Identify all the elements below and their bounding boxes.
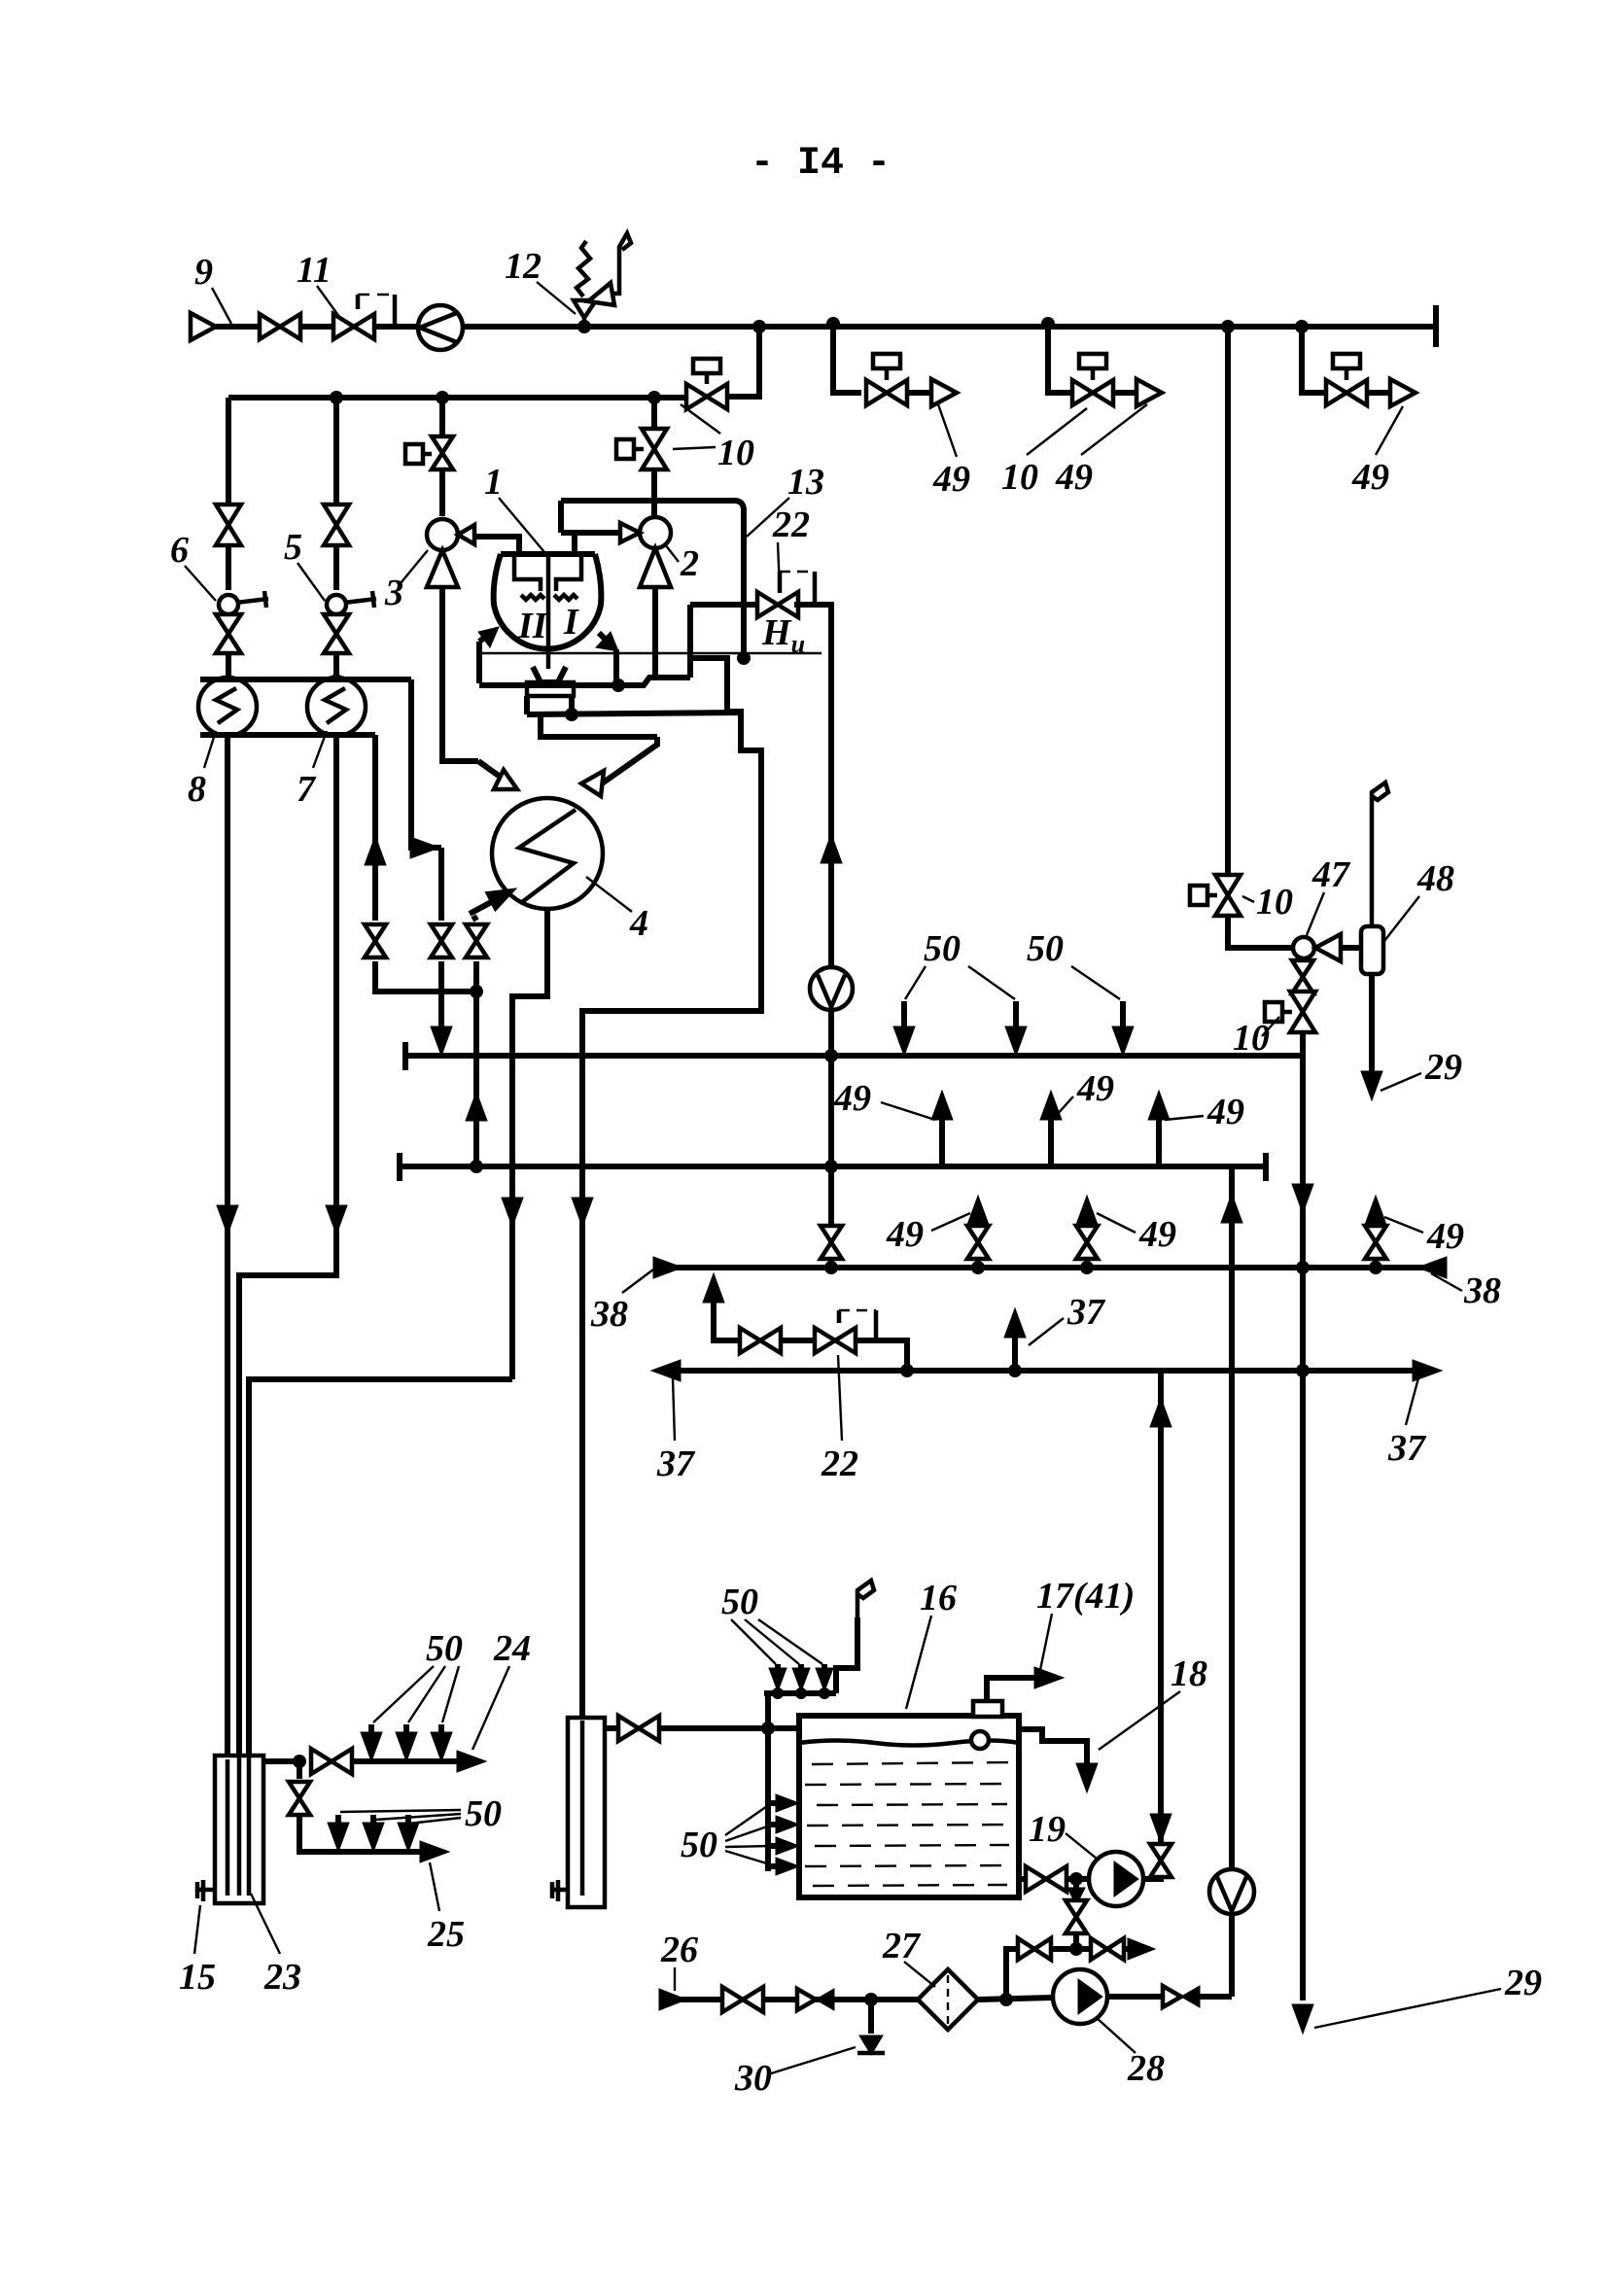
svg-text:49: 49 xyxy=(1206,1092,1244,1132)
wire duct top line xyxy=(200,677,411,682)
wire HX4 bottom to x527 xyxy=(512,909,547,1379)
valve 11 with actuator box xyxy=(333,314,374,339)
arrow outlet left line37 xyxy=(651,1360,681,1381)
node junction riser to valve 10a xyxy=(752,320,766,333)
svg-text:13: 13 xyxy=(787,462,824,503)
device 48 box xyxy=(1361,926,1383,974)
svg-text:10: 10 xyxy=(717,433,754,473)
wire branch 22b from line38 xyxy=(703,1273,724,1303)
arrow outlet right line37 xyxy=(1413,1360,1442,1381)
node junction to valve 5 column xyxy=(330,391,343,404)
wire staircase down to x599 xyxy=(582,658,761,1056)
svg-text:49: 49 xyxy=(932,459,970,500)
heat exchanger 7 xyxy=(307,678,366,736)
node junction branch 49a xyxy=(826,317,840,330)
node junction long right riser xyxy=(1221,320,1235,333)
wire cooler outlet to header 24 xyxy=(263,1758,299,1764)
svg-text:50: 50 xyxy=(924,928,961,969)
svg-text:15: 15 xyxy=(179,1957,216,1998)
wire x855 riser with booster pump xyxy=(828,605,834,1268)
svg-text:22: 22 xyxy=(821,1444,858,1484)
relief valve 12 with spring and vent flag xyxy=(574,233,631,327)
valve on column 6 xyxy=(216,504,241,545)
open arrow outlet 49a xyxy=(931,379,957,406)
valve on top line left xyxy=(260,314,300,339)
wire valve 3 stem to vessel xyxy=(474,537,519,554)
arrows 49 up from manifold2 xyxy=(939,1118,945,1166)
arrow inlet 26 xyxy=(659,1989,686,2010)
svg-text:11: 11 xyxy=(297,250,332,291)
svg-text:50: 50 xyxy=(465,1793,502,1834)
wire line 26 xyxy=(671,1997,918,2002)
wire column 5 x=346 xyxy=(333,398,339,504)
svg-text:16: 16 xyxy=(920,1578,957,1618)
wire under vessel level A xyxy=(479,678,690,685)
liquid dashes xyxy=(805,1762,1013,1886)
wire above 48 with flag xyxy=(1370,819,1375,926)
tank vent pipe with flag xyxy=(836,1618,857,1693)
svg-text:19: 19 xyxy=(1029,1809,1066,1850)
svg-text:29: 29 xyxy=(1504,1963,1542,2003)
wire tank top manifold xyxy=(764,1690,836,1696)
wire under vessel level B xyxy=(524,696,530,714)
node junction to valve 10b riser xyxy=(647,391,661,404)
valve 2 control valve xyxy=(620,517,671,587)
svg-text:2: 2 xyxy=(680,543,699,584)
wire x346 below HX7 down and over to x246 xyxy=(239,735,336,1756)
valve 22b with actuator box xyxy=(815,1328,856,1353)
pump on top line (circle with chords) xyxy=(418,305,463,350)
pump 28 xyxy=(1053,1969,1107,2024)
svg-text:17(41): 17(41) xyxy=(1036,1576,1135,1617)
wire tank left distribution column xyxy=(765,1693,771,1871)
svg-text:29: 29 xyxy=(1424,1047,1462,1088)
wire valve22 to x855 xyxy=(794,605,831,1056)
heat exchanger 4 xyxy=(492,798,603,909)
riser 49d on line38 xyxy=(975,1261,981,1268)
valve 10 branch b with handle xyxy=(1072,380,1113,405)
arrow outlet 25 xyxy=(420,1841,449,1862)
riser 49e on line38 xyxy=(1084,1261,1090,1268)
wire riser from top line down to valve 10a xyxy=(728,327,759,397)
wire below 10d to restrictor 47 xyxy=(1228,916,1294,948)
valve 10a on second line xyxy=(686,384,727,409)
wire duct bottom line xyxy=(200,732,375,738)
wire x234 below HX8 down to cooler 23 xyxy=(225,736,230,1759)
node junction drain 30 xyxy=(864,1993,878,2006)
wire line 37 xyxy=(665,1368,1426,1374)
cooler 23 body xyxy=(215,1756,263,1903)
svg-text:49: 49 xyxy=(1076,1068,1114,1109)
wire x765 drop to staircase xyxy=(741,605,747,658)
check valve on 26 xyxy=(797,1989,816,2010)
arrow down x599 below manifold2 xyxy=(572,1198,593,1227)
liquid level line xyxy=(799,1741,1019,1746)
node junction x1340 line38 xyxy=(1296,1261,1310,1274)
valve 22 xyxy=(757,592,798,617)
wire x599 long drop to unit 14 xyxy=(579,1011,585,1718)
svg-text:49: 49 xyxy=(1138,1214,1176,1255)
wire x=386 duct bottom drop xyxy=(372,735,378,921)
wire x710 drop xyxy=(687,605,693,678)
valve 10b with box handle xyxy=(642,429,667,470)
arrows 50 into tank left wall xyxy=(768,1800,778,1806)
wire 17(41) outlet xyxy=(987,1678,1036,1701)
svg-text:24: 24 xyxy=(493,1628,531,1669)
wire long riser x1263 xyxy=(1225,327,1231,875)
node junction to valve 3 column xyxy=(436,391,449,404)
wire left column x=234 from second line xyxy=(226,398,231,504)
arrow down x1340 below manifold2 level xyxy=(1292,1184,1313,1213)
bypass from filter outlet xyxy=(1006,1949,1018,2000)
wire top main line xyxy=(202,324,1436,330)
pump 19 branch down xyxy=(1073,1879,1079,1891)
svg-text:28: 28 xyxy=(1127,2048,1165,2089)
svg-text:1: 1 xyxy=(484,462,503,503)
svg-text:8: 8 xyxy=(188,769,206,810)
wire 13 frame right leg xyxy=(654,501,744,605)
fitting 15 left xyxy=(197,1880,215,1901)
svg-text:10: 10 xyxy=(1233,1018,1270,1059)
svg-text:7: 7 xyxy=(297,769,317,810)
valve on x855 above line38 xyxy=(821,1226,842,1259)
valve unit14 outlet xyxy=(605,1725,618,1731)
valve 6 gland valve with lever xyxy=(216,591,268,653)
overflow 18 xyxy=(1019,1729,1087,1763)
arrow down x234 xyxy=(217,1205,238,1235)
svg-text:47: 47 xyxy=(1311,854,1351,895)
wire under vessel level C xyxy=(541,714,657,737)
pump 19 suction xyxy=(1019,1876,1028,1882)
svg-text:II: II xyxy=(517,606,548,646)
arrow inlet left line38 xyxy=(653,1257,682,1278)
filter 27 diamond xyxy=(918,1969,978,2030)
arrows 50 into tank manifold xyxy=(775,1664,781,1670)
wire diagonal into HX4 left xyxy=(478,761,512,785)
arrow down x527 below manifold2 xyxy=(502,1198,523,1227)
arrow up between manifolds x490 xyxy=(466,1092,487,1121)
wire manifold 2 xyxy=(400,1164,1266,1169)
svg-text:25: 25 xyxy=(427,1914,465,1955)
svg-text:38: 38 xyxy=(1463,1270,1501,1311)
valve 10e with box handle xyxy=(1290,991,1315,1032)
node tee 13 frame at riser xyxy=(561,498,654,504)
node junction duct top at HX7 xyxy=(331,674,342,685)
arrows 50 onto 24 header xyxy=(368,1724,374,1734)
valve with box handle on x455 xyxy=(439,398,445,435)
svg-text:10: 10 xyxy=(1001,457,1038,498)
svg-text:49: 49 xyxy=(1055,457,1093,498)
svg-text:48: 48 xyxy=(1416,858,1454,899)
svg-text:18: 18 xyxy=(1171,1653,1207,1694)
arrow outlet 24 xyxy=(457,1751,486,1772)
node junction x490 y1020 xyxy=(470,985,483,998)
supply arrows 50 onto manifold1 xyxy=(901,1001,907,1026)
wire second header line xyxy=(228,395,686,400)
svg-text:23: 23 xyxy=(263,1957,301,1998)
svg-text:3: 3 xyxy=(384,573,403,613)
wire filter to pump 28 xyxy=(978,1998,1053,2000)
svg-text:37: 37 xyxy=(1066,1292,1106,1333)
wire branch 49a drop xyxy=(833,324,861,393)
valve on 22b branch xyxy=(740,1328,781,1353)
svg-text:38: 38 xyxy=(590,1294,628,1335)
svg-text:49: 49 xyxy=(1351,457,1389,498)
node junction x855 line38 xyxy=(824,1261,838,1274)
valve branch 49c with handle xyxy=(1326,380,1367,405)
valve on 26 xyxy=(722,1987,763,2012)
fitting 15 right xyxy=(552,1880,568,1901)
svg-text:50: 50 xyxy=(426,1628,463,1669)
open arrow 47 pointing left xyxy=(1315,934,1341,961)
arrow down onto manifold 1 xyxy=(431,1026,452,1056)
wire x=454 down to manifold 1 xyxy=(438,848,444,921)
arrow up on x386 xyxy=(365,836,386,865)
wire line 38 xyxy=(667,1265,1432,1270)
valve 3 control valve xyxy=(427,519,474,587)
svg-text:22: 22 xyxy=(772,504,810,545)
svg-text:4: 4 xyxy=(629,903,648,944)
valve 10d with box handle xyxy=(1215,875,1241,916)
wire valve 2 stem xyxy=(561,530,620,536)
svg-text:27: 27 xyxy=(882,1926,922,1966)
arrow inlet right line38 pointing left xyxy=(1417,1257,1447,1278)
svg-text:37: 37 xyxy=(1387,1428,1427,1469)
node junction under vessel xyxy=(612,678,625,692)
node junction x490 manifold2 xyxy=(470,1160,483,1173)
riser 49f on line38 right xyxy=(1373,1261,1379,1268)
wire x1340 stack below 47 xyxy=(1300,958,1306,966)
valve on column 5 xyxy=(324,504,349,545)
svg-text:26: 26 xyxy=(660,1930,698,1970)
node junction tank inlet column xyxy=(761,1722,775,1735)
wire diagonal inlet with arrow lower left xyxy=(470,892,509,914)
wire riser pump19 to line37 x1194 xyxy=(1158,1371,1164,1846)
svg-text:- I4 -: - I4 - xyxy=(751,142,891,186)
pump 19 xyxy=(1089,1852,1143,1906)
svg-text:49: 49 xyxy=(886,1214,924,1255)
arrows 50 onto 25 header xyxy=(335,1815,341,1825)
level line Hi thin xyxy=(479,652,821,654)
wire x527 to left descent x256 xyxy=(249,1379,512,1756)
svg-text:I: I xyxy=(563,602,579,643)
tank top nozzle 17 xyxy=(973,1701,1002,1717)
valve 5 gland valve with lever xyxy=(324,591,376,653)
wire x490 valve stack xyxy=(473,916,476,921)
valve on 24 header xyxy=(311,1749,352,1774)
node junction x855 manifold2 xyxy=(824,1160,838,1173)
wire x1340 long drop xyxy=(1300,1032,1306,2000)
wire riser pump28 to manifold2 x1267 xyxy=(1229,1166,1235,1997)
arrow down x346 xyxy=(326,1205,347,1235)
svg-text:30: 30 xyxy=(734,2058,772,2099)
branch arrow 37 mid xyxy=(1012,1336,1018,1371)
wire manifold 1 xyxy=(405,1053,1303,1059)
wire duct drop x=423 to x=454 xyxy=(411,679,441,848)
wire diagonal into HX4 right xyxy=(595,737,657,788)
booster pump circle on x1267 xyxy=(1209,1869,1254,1914)
svg-text:37: 37 xyxy=(656,1444,696,1484)
pump circle on x855 xyxy=(810,967,853,1010)
svg-text:6: 6 xyxy=(170,530,189,571)
vessel 1 outline twin cup xyxy=(494,554,602,669)
tank 16 body xyxy=(799,1716,1019,1897)
wire 47 to 48 xyxy=(1341,945,1372,951)
node junction x1340 line37 xyxy=(1296,1364,1310,1377)
node junction branch 49c xyxy=(1295,320,1309,333)
wire riser below valve 2 xyxy=(652,587,658,678)
node junction branch 10/49b xyxy=(1041,317,1055,330)
wire branch 10/49b drop xyxy=(1048,324,1070,393)
svg-text:50: 50 xyxy=(721,1582,758,1622)
heat exchanger 8 xyxy=(198,678,257,736)
arrow 29 bottom xyxy=(1292,2004,1313,2034)
wire riser x=673 from second line to valve 10b xyxy=(651,398,657,429)
svg-text:12: 12 xyxy=(505,246,542,287)
svg-text:9: 9 xyxy=(194,252,213,293)
svg-text:50: 50 xyxy=(1027,928,1064,969)
arrow up on x855 xyxy=(821,834,842,863)
wire valve22 header y=622 xyxy=(690,602,761,608)
wire 22b to line37 xyxy=(856,1340,907,1371)
svg-text:49: 49 xyxy=(833,1078,871,1119)
svg-text:5: 5 xyxy=(284,527,302,568)
arrow into vessel bottom left xyxy=(476,642,482,683)
inlet open arrow 9 xyxy=(191,313,216,340)
arrow flow right into x454 xyxy=(410,837,439,858)
vessel funnel bottom xyxy=(533,667,566,682)
wire below 48 to arrow 29a xyxy=(1369,974,1375,1071)
node terminator right end of top line xyxy=(1433,305,1439,347)
node junction x855 manifold1 xyxy=(824,1049,838,1062)
open arrow outlet 49b xyxy=(1136,379,1162,406)
svg-text:49: 49 xyxy=(1426,1216,1464,1257)
valve branch 49a with handle xyxy=(866,380,907,405)
node junction at relief valve 12 xyxy=(577,320,591,333)
arrow at vessel bottom right xyxy=(599,633,609,643)
pump 28 discharge to check valve xyxy=(1107,1994,1163,2000)
svg-text:50: 50 xyxy=(681,1825,717,1865)
wire below valve 3 xyxy=(442,587,478,761)
restrictor 47 circle xyxy=(1293,937,1314,958)
wire branch down to header 25 xyxy=(297,1761,302,1779)
filter column 14 xyxy=(568,1718,605,1907)
svg-text:10: 10 xyxy=(1256,882,1293,922)
wire branch 49c drop xyxy=(1302,327,1324,393)
open arrow outlet 49c xyxy=(1390,379,1416,406)
